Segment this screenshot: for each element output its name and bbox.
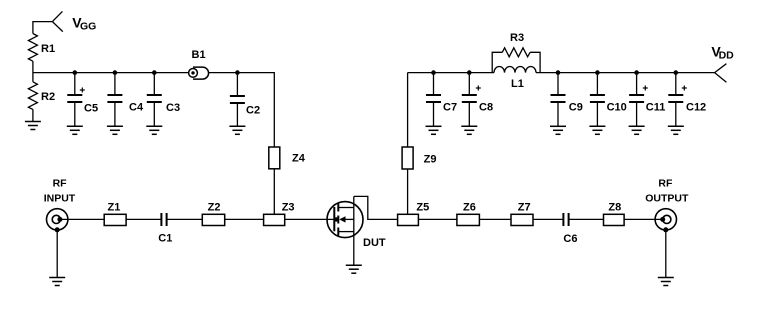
C11 plus mark xyxy=(643,86,648,91)
ground under C10 xyxy=(589,126,605,134)
capacitor C7 xyxy=(426,73,441,127)
ground under C12 xyxy=(668,126,684,134)
svg-text:L1: L1 xyxy=(511,78,524,90)
capacitor C12 xyxy=(668,73,683,127)
resistor R3 bypass loop xyxy=(492,48,540,73)
svg-text:R1: R1 xyxy=(41,43,55,55)
ground under C8 xyxy=(461,126,477,134)
svg-text:DD: DD xyxy=(719,50,735,62)
ground under RF input xyxy=(49,278,65,286)
svg-text:C3: C3 xyxy=(166,102,180,114)
svg-text:C1: C1 xyxy=(158,233,172,245)
wire C1 to Z2 xyxy=(167,218,203,220)
svg-text:C10: C10 xyxy=(607,102,627,114)
RF output connector xyxy=(655,209,676,233)
svg-text:R3: R3 xyxy=(510,32,524,44)
ground under C9 xyxy=(550,126,566,134)
ground under C5 xyxy=(67,126,83,134)
ground under RF output xyxy=(658,278,674,286)
node C5 junction xyxy=(73,70,78,75)
wire Z2 to Z3 xyxy=(225,218,264,220)
svg-text:C12: C12 xyxy=(686,102,706,114)
C8 plus mark xyxy=(476,86,481,91)
ground under C2 xyxy=(229,126,245,134)
VGG terminal xyxy=(33,11,63,33)
resistor Z9 xyxy=(402,147,413,169)
svg-text:Z8: Z8 xyxy=(608,202,621,214)
wire Z9 to Z5 xyxy=(407,169,409,214)
wire R2 to ground xyxy=(32,109,34,121)
svg-text:C4: C4 xyxy=(129,102,144,114)
ground under C3 xyxy=(146,126,162,134)
svg-text:DUT: DUT xyxy=(363,237,386,249)
RF OUTPUT labels xyxy=(645,178,689,205)
transistor DUT xyxy=(327,196,363,265)
svg-text:RF: RF xyxy=(658,178,673,190)
resistor R2 xyxy=(28,82,37,110)
VDD terminal xyxy=(715,64,727,82)
inductor L1 xyxy=(494,67,536,73)
svg-text:Z6: Z6 xyxy=(463,202,476,214)
svg-text:C7: C7 xyxy=(443,102,457,114)
resistor Z1 xyxy=(104,214,126,225)
svg-text:Z4: Z4 xyxy=(292,152,306,164)
wire Z8 to RF output xyxy=(624,218,663,220)
capacitor C6 xyxy=(563,213,568,226)
ground under C4 xyxy=(107,126,123,134)
svg-text:C9: C9 xyxy=(569,102,583,114)
svg-text:Z1: Z1 xyxy=(108,202,121,214)
svg-text:C8: C8 xyxy=(479,102,493,114)
svg-text:GG: GG xyxy=(80,20,96,32)
wire gate bias bus xyxy=(33,72,189,74)
VDD label xyxy=(711,43,734,61)
svg-text:B1: B1 xyxy=(192,49,206,61)
wire Z5 to Z6 xyxy=(418,218,457,220)
wire Z3 to DUT gate xyxy=(285,218,335,220)
capacitor C9 xyxy=(551,73,566,127)
capacitor C4 xyxy=(107,73,122,127)
resistor Z5 xyxy=(398,214,419,225)
capacitor C8 xyxy=(462,73,477,127)
resistor Z2 xyxy=(202,214,224,225)
svg-text:Z9: Z9 xyxy=(424,154,437,166)
node C10 junction xyxy=(595,70,600,75)
RF input connector xyxy=(47,209,68,233)
resistor Z4 xyxy=(269,147,280,169)
RF INPUT labels xyxy=(44,178,76,205)
svg-text:RF: RF xyxy=(53,178,68,190)
svg-text:Z3: Z3 xyxy=(282,202,295,214)
ground under R2 xyxy=(25,122,41,130)
node C4 junction xyxy=(113,70,118,75)
VGG label xyxy=(72,15,96,33)
svg-text:Z5: Z5 xyxy=(416,202,429,214)
resistor R1 xyxy=(28,34,37,62)
node C9 junction xyxy=(556,70,561,75)
wire bead to C2 node xyxy=(209,72,275,74)
svg-text:Z2: Z2 xyxy=(208,202,221,214)
wire Z9 column xyxy=(407,73,409,147)
capacitor C11 xyxy=(629,73,644,127)
node C8 junction xyxy=(467,70,472,75)
ground under C11 xyxy=(629,126,645,134)
capacitor C5 xyxy=(67,73,82,127)
wire Z7 to C6 xyxy=(533,218,563,220)
ferrite bead B1 xyxy=(189,67,209,79)
wire DUT drain jog to Z5 xyxy=(354,196,398,219)
svg-text:C2: C2 xyxy=(246,105,260,117)
resistor Z8 xyxy=(604,214,625,225)
C12 plus mark xyxy=(682,86,687,91)
resistor Z7 xyxy=(511,214,533,225)
svg-text:C5: C5 xyxy=(84,103,98,115)
wire R1 to node xyxy=(32,61,34,82)
svg-text:Z7: Z7 xyxy=(518,202,531,214)
svg-text:C6: C6 xyxy=(563,233,577,245)
ground under C7 xyxy=(426,126,442,134)
capacitor C3 xyxy=(147,73,162,127)
svg-text:INPUT: INPUT xyxy=(44,192,76,204)
wire Z6 to Z7 xyxy=(479,218,511,220)
node C12 junction xyxy=(674,70,679,75)
wire drain bus left segment xyxy=(408,72,494,74)
svg-text:R2: R2 xyxy=(41,91,55,103)
resistor Z6 xyxy=(457,214,480,225)
wire output connector to ground xyxy=(665,230,667,278)
node C7 junction xyxy=(431,70,436,75)
ground under DUT xyxy=(346,265,362,273)
wire Z1 to C1 xyxy=(126,218,161,220)
wire drain bus right segment xyxy=(536,72,715,74)
svg-text:C11: C11 xyxy=(646,102,666,114)
C5 plus mark xyxy=(80,88,85,93)
wire down to Z4 xyxy=(273,72,275,147)
node C3 junction xyxy=(152,70,157,75)
capacitor C2 xyxy=(230,73,245,127)
resistor Z3 xyxy=(264,214,285,225)
node C2 junction xyxy=(235,70,240,75)
wire connector to ground xyxy=(56,230,58,278)
node C11 junction xyxy=(634,70,639,75)
wire Z4 to Z3 xyxy=(273,169,275,215)
wire C6 to Z8 xyxy=(569,218,604,220)
capacitor C1 xyxy=(161,213,166,226)
capacitor C10 xyxy=(590,73,605,127)
wire RF input to Z1 xyxy=(60,218,104,220)
svg-text:OUTPUT: OUTPUT xyxy=(645,192,689,204)
